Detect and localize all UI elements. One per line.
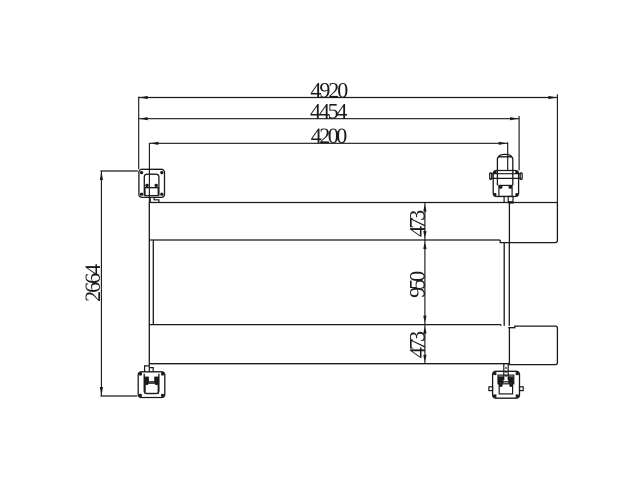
post P3 crossbar bolts: [145, 382, 158, 385]
post P2 base plate: [493, 171, 518, 197]
post P2 stem: [504, 196, 513, 203]
arrow 4920 right: [548, 96, 557, 99]
arrow 950 down: [423, 316, 426, 325]
arrow 473a up: [423, 203, 426, 212]
arrow 4920 left: [139, 96, 148, 99]
dim 4454 line: [139, 118, 519, 120]
post P3 crossbar: [144, 381, 160, 383]
post P2 slider bolts: [499, 185, 512, 188]
post P3 column: [144, 374, 159, 394]
extension line right 4920: [556, 94, 558, 202]
svg-text:950: 950: [405, 271, 430, 298]
extension line left 4920/4454: [138, 97, 140, 170]
svg-text:4454: 4454: [310, 98, 347, 123]
post P1 crossbar bolts: [145, 184, 158, 187]
post P2 slider box: [499, 185, 512, 196]
post P3 bolt holes: [139, 372, 164, 397]
left cross rail inner edge: [153, 240, 154, 325]
svg-text:473: 473: [405, 331, 430, 358]
arrow 4454 left: [139, 117, 148, 120]
extension line left 4200: [148, 143, 150, 203]
post P2 top-right motor dome: [497, 154, 512, 185]
svg-text:4200: 4200: [311, 123, 348, 148]
svg-text:473: 473: [405, 210, 430, 237]
post P4 stem: [504, 364, 508, 380]
post P2 clamp bars: [490, 173, 523, 180]
post P4 slider box: [499, 382, 512, 394]
post P3 bottom-left base plate: [138, 372, 165, 398]
extension line 2664 bottom: [100, 395, 137, 397]
arrow 4200 left: [149, 142, 158, 145]
top ramp: [500, 203, 557, 243]
right cross rail: [504, 243, 509, 326]
arrow 2664 top: [100, 171, 103, 180]
post P1 column: [144, 174, 159, 195]
post P4 bottom-right base plate: [493, 371, 520, 398]
extension line right 4200: [507, 142, 509, 170]
runway-ramp joint line top: [508, 203, 510, 243]
post P1 top-left base plate: [139, 169, 165, 197]
dim 4200 line: [149, 142, 507, 144]
dim column right line: [424, 203, 426, 364]
post P1 bolt holes: [140, 171, 163, 196]
bottom ramp: [508, 326, 557, 365]
post P4 side tabs: [489, 387, 523, 391]
extension line right 4454: [518, 116, 520, 170]
arrow 473b up: [423, 325, 426, 334]
dim 4920 line: [139, 97, 558, 99]
post P4 slider bolts: [499, 384, 513, 387]
arrow 4454 right: [510, 117, 519, 120]
post P1 stem: [150, 197, 159, 202]
post P3 stem: [145, 364, 154, 372]
post P2 bolt holes: [493, 171, 518, 197]
svg-text:2664: 2664: [80, 264, 105, 302]
post P3 slider box: [145, 383, 158, 393]
arrow 473b down: [423, 355, 426, 364]
post P4 corner marks: [493, 372, 518, 397]
post P1 slider box: [145, 188, 158, 196]
post P3 lock blocks: [144, 377, 159, 383]
post P1 crossbar: [144, 187, 160, 189]
arrow 473a down: [423, 231, 426, 240]
arrow 950 up: [423, 240, 426, 249]
arrow 4200 right: [499, 142, 508, 145]
post P4 lock assembly: [498, 375, 514, 384]
arrow 2664 bottom: [100, 387, 103, 396]
top runway: [149, 203, 557, 364]
dim 2664 line: [100, 171, 102, 396]
extension line 2664 top: [100, 170, 137, 172]
